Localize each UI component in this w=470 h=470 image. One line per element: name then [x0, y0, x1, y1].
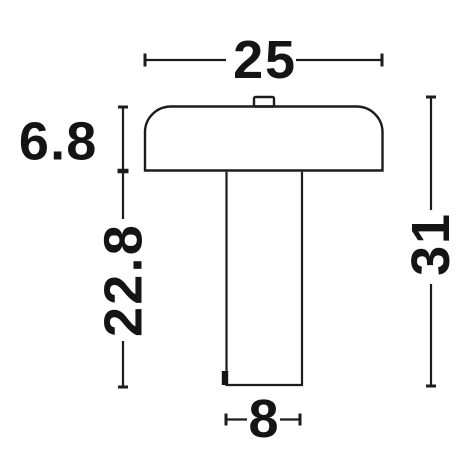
svg-text:25: 25	[233, 30, 297, 90]
lamp knob	[254, 97, 274, 107]
lamp stem body	[227, 172, 303, 385]
svg-text:31: 31	[401, 212, 461, 276]
dimension height ticks	[118, 107, 129, 387]
dimension width 25: end ticks	[145, 54, 382, 67]
dimension height 6.8 and 22.8: line	[122, 108, 124, 386]
dimension base width 8: line	[226, 418, 300, 420]
dimension base width 8: ticks	[226, 414, 300, 426]
dimension total height 31: line	[430, 98, 432, 385]
svg-text:8: 8	[248, 389, 278, 449]
dimension width 25: line	[146, 59, 381, 61]
stem switch mark	[222, 371, 228, 385]
lamp shade outline	[145, 107, 383, 171]
dimension total height 31: ticks	[426, 97, 436, 386]
svg-text:6.8: 6.8	[19, 112, 98, 172]
svg-text:22.8: 22.8	[94, 223, 154, 337]
